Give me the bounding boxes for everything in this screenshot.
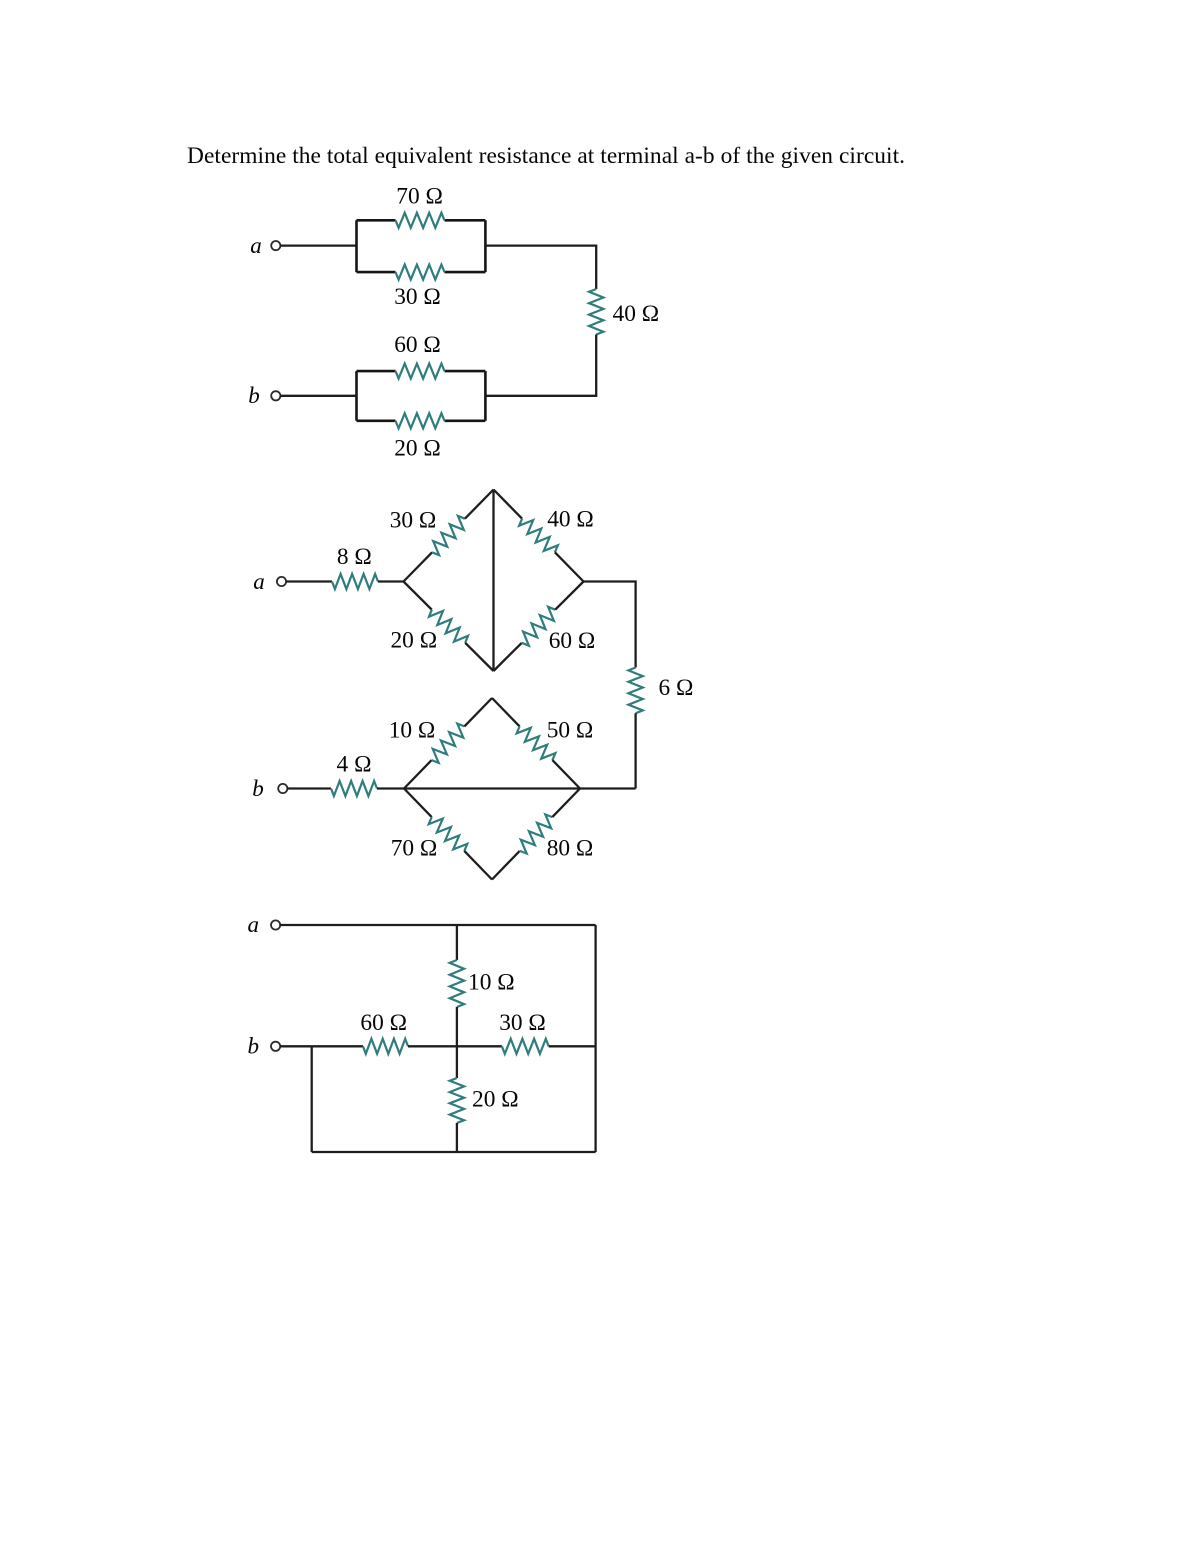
resistor 80 ohm: [520, 814, 553, 853]
svg-text:60 Ω: 60 Ω: [394, 332, 441, 358]
resistor 50 ohm: [517, 726, 556, 760]
terminal a circle (circuit 2): [277, 577, 286, 586]
wire bridge2 bottom-left edge lead-in: [404, 789, 432, 818]
svg-text:60 Ω: 60 Ω: [360, 1010, 407, 1036]
svg-text:b: b: [252, 776, 264, 801]
wire 4 ohm to bridge2 left node: [377, 787, 404, 789]
terminal b circle (circuit 2): [278, 784, 287, 793]
wire bridge1 top-left edge lead-out: [465, 490, 494, 519]
wire b to 4 ohm: [287, 787, 331, 789]
wire right rail to box2: [485, 335, 596, 396]
resistor 40 ohm: [519, 519, 558, 553]
resistor 60 ohm: [522, 607, 555, 646]
svg-text:a: a: [248, 912, 260, 937]
resistor 10 ohm: [432, 724, 465, 763]
terminal a circle (circuit 3): [271, 920, 280, 929]
wire bridge2 bottom-right edge lead-in: [492, 851, 520, 880]
svg-text:4 Ω: 4 Ω: [337, 752, 372, 778]
resistor 4 ohm: [331, 781, 377, 796]
svg-text:b: b: [248, 1034, 260, 1059]
wire a to box1: [280, 244, 356, 246]
svg-text:50 Ω: 50 Ω: [547, 718, 594, 744]
box1 top edge wires: [357, 219, 486, 222]
wire bridge2 bottom-right edge lead-out: [552, 789, 580, 818]
svg-text:20 Ω: 20 Ω: [472, 1087, 519, 1113]
wire 30 ohm to right rail: [549, 1045, 596, 1047]
wire bridge1 bottom-right edge lead-in: [494, 643, 522, 671]
svg-text:10 Ω: 10 Ω: [468, 970, 515, 996]
resistor 10 ohm (vertical): [450, 960, 464, 1007]
wire bridge1 right node to 6-ohm rail: [584, 582, 636, 668]
wire center rail middle segment: [456, 1007, 458, 1078]
resistor 40 ohm (vertical): [589, 289, 603, 335]
svg-text:a: a: [253, 569, 265, 594]
terminal b circle (circuit 3): [271, 1042, 280, 1051]
resistor 30 ohm: [432, 516, 465, 555]
svg-text:6 Ω: 6 Ω: [659, 675, 694, 701]
wire center rail lower segment: [456, 1123, 458, 1152]
wire bridge2 top-right edge lead-out: [552, 760, 580, 788]
resistor 6 ohm (vertical): [628, 668, 642, 714]
wire bottom rail: [312, 1151, 596, 1153]
wire a to 8 ohm: [286, 580, 332, 582]
wire bridge1 top-left edge lead-in: [404, 552, 433, 581]
resistor 8 ohm: [332, 574, 378, 589]
wire 8 ohm to bridge left node: [378, 580, 404, 582]
resistor 30 ohm: [396, 265, 445, 280]
wire bridge2 top-left edge lead-in: [404, 760, 432, 788]
terminal b circle (circuit 1): [271, 391, 280, 400]
box2 top edge wires: [357, 370, 486, 373]
wire bridge2 top-left edge lead-out: [464, 698, 492, 726]
wire bridge1 top-right edge lead-out: [555, 552, 584, 581]
svg-text:b: b: [248, 383, 260, 408]
parallel box (70/30) frame left+right sides: [357, 220, 486, 272]
svg-text:40 Ω: 40 Ω: [613, 301, 660, 327]
svg-text:8 Ω: 8 Ω: [337, 544, 372, 570]
wire bridge2 center horizontal to 6-ohm rail: [404, 787, 636, 789]
svg-text:Determine the total equivalent: Determine the total equivalent resistanc…: [187, 143, 905, 169]
svg-text:30 Ω: 30 Ω: [499, 1010, 546, 1036]
box1 bottom edge wires: [357, 271, 486, 274]
wire b to 60 ohm: [280, 1045, 363, 1047]
resistor 60 ohm: [396, 364, 445, 379]
wire left rail: [311, 1046, 313, 1152]
wire b to box2: [280, 395, 356, 397]
wire bridge1 bottom-left edge lead-in: [404, 582, 432, 610]
box2 bottom edge wires: [357, 419, 486, 422]
svg-text:60 Ω: 60 Ω: [549, 628, 596, 654]
wire bridge2 top-right edge lead-in: [492, 698, 520, 726]
svg-text:20 Ω: 20 Ω: [390, 627, 437, 653]
wire bridge1 bottom-left edge lead-out: [465, 643, 493, 671]
wire right rail: [594, 925, 596, 1152]
svg-text:20 Ω: 20 Ω: [394, 435, 441, 461]
svg-text:10 Ω: 10 Ω: [389, 718, 436, 744]
wire 60 ohm to center node: [408, 1045, 502, 1047]
svg-text:70 Ω: 70 Ω: [396, 184, 443, 210]
svg-text:70 Ω: 70 Ω: [391, 836, 438, 862]
wire bridge1 top-right edge lead-in: [494, 490, 523, 519]
svg-text:a: a: [250, 233, 262, 258]
terminal a circle (circuit 1): [271, 241, 280, 250]
svg-text:80 Ω: 80 Ω: [547, 836, 594, 862]
svg-text:30 Ω: 30 Ω: [390, 507, 437, 533]
wire a top rail: [280, 924, 596, 926]
wire box1 to right rail: [485, 246, 596, 289]
resistor 20 ohm: [429, 610, 468, 643]
resistor 30 ohm (circuit 3): [502, 1039, 549, 1054]
svg-text:40 Ω: 40 Ω: [547, 506, 594, 532]
parallel box (60/20) frame left+right sides: [357, 371, 486, 421]
wire 6-ohm rail down to bridge2 right wire: [634, 713, 636, 788]
resistor 60 ohm (circuit 3): [363, 1039, 408, 1054]
wire bridge1 bottom-right edge lead-out: [555, 582, 583, 610]
wire bridge2 bottom-left edge lead-out: [464, 851, 492, 880]
resistor 70 ohm: [396, 213, 445, 228]
resistor 70 ohm: [429, 817, 468, 851]
resistor 20 ohm (vertical): [450, 1078, 464, 1123]
svg-text:30 Ω: 30 Ω: [394, 284, 441, 310]
resistor 20 ohm: [396, 413, 445, 428]
wire center rail upper segment: [456, 925, 458, 960]
wire bridge1 center vertical: [492, 490, 494, 672]
